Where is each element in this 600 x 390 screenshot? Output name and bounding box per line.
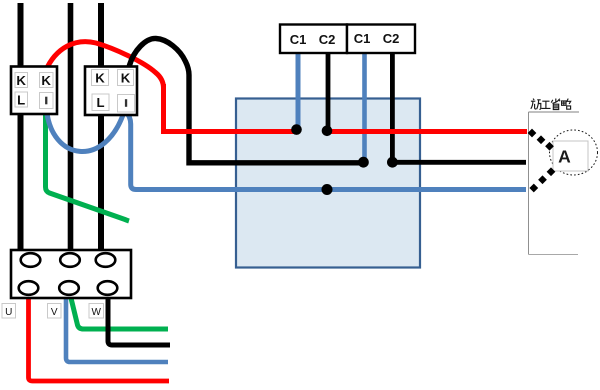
- terminal hole bottom row 3: [98, 281, 118, 295]
- wire: red right horizontal to ammeter: [329, 129, 527, 134]
- node: junction blue C1 on red: [291, 124, 302, 135]
- wire: blue C1 of CT2 vertical: [362, 53, 367, 160]
- node: junction black C2' corner: [387, 157, 398, 168]
- svg-text:V: V: [51, 307, 58, 318]
- dashed connector red wire to ammeter: [528, 129, 554, 151]
- CT1 terminal k secondary: [40, 73, 54, 88]
- wire: black C2 of CT2 down and right to ammeter: [392, 53, 526, 162]
- ammeter box: [553, 141, 588, 171]
- wire: red vertical and left horizontal to junction: [164, 84, 295, 132]
- svg-text:U: U: [5, 307, 12, 318]
- svg-text:L: L: [17, 93, 25, 108]
- CT1 terminal L primary: [15, 92, 28, 107]
- dashed connector blue wire to ammeter: [529, 167, 555, 192]
- svg-text:C1: C1: [290, 32, 307, 47]
- svg-text:C1: C1: [354, 31, 371, 46]
- wire: motor lead red (U): [29, 294, 170, 381]
- wire: green from CT1 l terminal down and diagonal: [46, 110, 130, 221]
- boundary line under 施工省略: [529, 111, 580, 113]
- wire: phase 3 black vertical: [98, 3, 104, 252]
- svg-text:C2: C2: [319, 32, 336, 47]
- junction box (light blue enclosure): [236, 99, 420, 268]
- CT2 terminal l secondary: [118, 95, 135, 113]
- wire: phase 1 black vertical: [18, 3, 24, 252]
- svg-text:K: K: [95, 71, 105, 86]
- svg-text:K: K: [41, 73, 51, 88]
- test terminal box 1 (C1 C2): [280, 25, 347, 54]
- svg-text:W: W: [91, 307, 101, 318]
- label V: [48, 304, 62, 319]
- wire: blue C1 of CT1 vertical: [296, 53, 301, 127]
- wire: motor lead black (W): [108, 295, 170, 345]
- node: junction blue C1' on black: [358, 157, 369, 168]
- label 施工省略 (construction omitted): [531, 99, 571, 110]
- wire: black C2 of CT1 vertical: [326, 53, 331, 128]
- label W: [89, 304, 104, 319]
- terminal hole top row 1: [21, 253, 41, 267]
- ammeter dashed circle: [550, 130, 598, 175]
- CT transformer 1 body: [11, 67, 57, 115]
- svg-text:K: K: [16, 73, 26, 88]
- CT transformer 2 body: [85, 67, 137, 116]
- terminal hole bottom row 1: [19, 281, 39, 295]
- CT2 terminal L primary: [92, 94, 109, 111]
- wire: phase 2 black vertical: [68, 3, 74, 252]
- test terminal box 2 (C1 C2): [347, 25, 415, 54]
- boundary line bottom: [529, 254, 579, 256]
- node: junction black C2 on red: [322, 126, 333, 137]
- terminal hole top row 2: [60, 253, 80, 267]
- terminal hole top row 3: [96, 253, 116, 267]
- svg-text:A: A: [558, 147, 571, 167]
- wire: blue common from CT2 l down and right to ammeter: [126, 112, 526, 190]
- node: junction on blue common wire: [322, 184, 333, 195]
- svg-text:C2: C2: [383, 31, 400, 46]
- motor terminal block: [11, 250, 131, 298]
- CT2 terminal k secondary: [118, 70, 134, 86]
- CT1 terminal l secondary: [40, 93, 54, 109]
- CT1 terminal K primary: [15, 73, 28, 88]
- svg-text:K: K: [121, 71, 131, 86]
- label U: [2, 304, 16, 319]
- wire: motor lead blue (V): [66, 295, 168, 362]
- CT2 terminal K primary: [92, 70, 109, 86]
- wire: blue U link between CT1 l and CT2 l: [47, 109, 125, 151]
- svg-text:L: L: [96, 95, 104, 110]
- wire: red arc from CT1 k: [46, 42, 164, 88]
- terminal hole bottom row 2: [59, 281, 79, 295]
- boundary line vertical (site-omitted area): [528, 112, 530, 255]
- wire: black arc from CT2 k to junction (left black horizontal): [129, 38, 360, 162]
- wire: motor lead green: [70, 294, 168, 329]
